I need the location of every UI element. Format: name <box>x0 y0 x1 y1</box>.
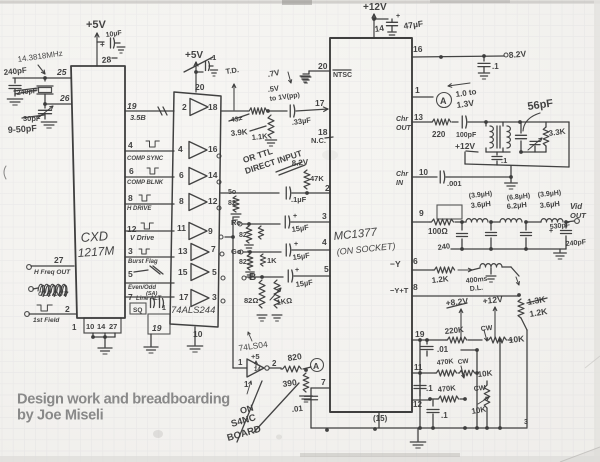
label 8.2V (47K) <box>291 158 309 168</box>
diagonal note line <box>237 381 299 442</box>
svg-text:2: 2 <box>182 102 187 112</box>
wire pin15 <box>373 412 388 428</box>
wire pin25 <box>13 67 71 80</box>
power +12V (tank) <box>455 141 478 152</box>
wire sync bus vertical <box>225 218 235 368</box>
IC U1 label CXD <box>80 228 108 245</box>
ground (ntsc top) <box>301 74 311 83</box>
svg-text:Burst Flag: Burst Flag <box>128 259 158 265</box>
wire pin12 v drive <box>125 223 174 242</box>
svg-text:IN: IN <box>396 180 404 187</box>
svg-text:.5V: .5V <box>267 84 279 94</box>
capacitor C1 10uF <box>100 30 125 53</box>
capacitor 240pF label <box>3 66 27 77</box>
resistor 100ohm <box>428 219 464 236</box>
svg-text:+5V: +5V <box>185 50 203 61</box>
svg-text:82: 82 <box>239 232 247 239</box>
svg-text:.01: .01 <box>437 345 449 354</box>
resistor 1.2K (pin6) <box>431 267 454 285</box>
svg-text:.1: .1 <box>441 411 448 420</box>
wire pin3 burst flag <box>125 246 174 265</box>
svg-text:1217M: 1217M <box>77 243 115 260</box>
svg-text:19: 19 <box>415 329 425 339</box>
svg-text:15: 15 <box>178 267 188 277</box>
resistor 470K (12) <box>428 383 467 402</box>
wire left drop (pots) <box>419 340 421 428</box>
capacitor .01 (pin7) <box>291 396 317 414</box>
ground (dl) <box>486 268 496 282</box>
wire tank top <box>484 120 569 124</box>
svg-text:9: 9 <box>208 226 213 236</box>
svg-text:.01: .01 <box>291 404 304 414</box>
box SQ <box>130 303 146 314</box>
buffer A6 pin13-7 <box>178 244 224 261</box>
crystal X1 <box>37 78 53 104</box>
svg-text:26: 26 <box>59 93 70 103</box>
resistor 82 (Bo) <box>244 280 267 321</box>
buffer A2 pin4-16 <box>178 142 221 159</box>
svg-text:5: 5 <box>212 267 217 277</box>
wire pin11 (U3) <box>412 363 435 375</box>
transformer T1 secondary <box>497 122 510 152</box>
wire pin1 <box>412 85 433 97</box>
svg-text:8.2V: 8.2V <box>291 158 309 168</box>
svg-text:820: 820 <box>287 351 303 363</box>
label OR TTL DIRECT INPUT <box>242 146 305 176</box>
svg-text:D.L.: D.L. <box>469 285 483 293</box>
svg-text:27: 27 <box>109 322 117 331</box>
svg-text:6: 6 <box>179 170 184 180</box>
capacitor 100pF <box>456 116 486 139</box>
capacitor C2 (240pF) <box>9 78 38 97</box>
svg-text:12: 12 <box>413 400 422 409</box>
potentiometer 10K b <box>458 366 493 379</box>
power +5V rail (left) <box>86 19 107 66</box>
power +5 (U4) <box>251 352 260 368</box>
svg-text:82: 82 <box>228 200 236 207</box>
svg-text:11: 11 <box>414 363 423 372</box>
arrow note 1 <box>244 380 252 394</box>
power +5V (U2) <box>184 50 213 92</box>
svg-text:14: 14 <box>208 170 218 180</box>
wire tank right <box>568 122 570 167</box>
ground (1.1K) <box>265 140 276 146</box>
wire pin13 chroma out <box>396 113 431 132</box>
svg-text:7: 7 <box>211 244 216 254</box>
ground (bottom bus) <box>410 428 425 448</box>
svg-text:7: 7 <box>128 292 133 302</box>
pin 28 label <box>101 54 117 65</box>
svg-text:5o: 5o <box>228 189 236 196</box>
inductor L2 <box>491 219 528 224</box>
terminal video out <box>566 219 579 224</box>
resistor 47K vert <box>304 170 324 189</box>
capacitor 15uF (pin5) <box>288 264 330 289</box>
wire 18 to resistor <box>221 68 292 111</box>
capacitor 56pF <box>516 122 527 152</box>
ground (CXD) <box>98 337 112 354</box>
box pin19 bottom <box>148 314 170 334</box>
svg-text:82: 82 <box>239 259 247 266</box>
svg-text:4: 4 <box>178 144 183 154</box>
ground (tank) <box>505 183 518 189</box>
svg-text:3.9K: 3.9K <box>230 127 248 138</box>
svg-text:CW: CW <box>480 325 493 333</box>
IC U3 label MC1377 <box>333 226 378 243</box>
IC U3 label on socket <box>336 241 396 257</box>
capacitor 47uF <box>387 13 424 38</box>
svg-text:11: 11 <box>177 223 186 233</box>
wire Go row <box>231 247 281 256</box>
label 470K CW <box>436 358 469 367</box>
svg-text:7: 7 <box>321 377 326 387</box>
svg-text:1: 1 <box>162 305 166 312</box>
note ON SYNC BOARD <box>226 403 263 444</box>
svg-text:1K: 1K <box>267 256 277 265</box>
svg-text:1st Field: 1st Field <box>33 317 60 324</box>
svg-text:−Y+T: −Y+T <box>390 286 409 295</box>
buffer A3 pin6-14 <box>179 168 221 185</box>
svg-text:3: 3 <box>128 246 133 256</box>
trimmer capacitor 9-50pF <box>38 104 53 119</box>
svg-text:470K: 470K <box>437 383 456 394</box>
resistor 1.3K/1.2K <box>518 294 549 319</box>
IC U1 label 1217M <box>77 243 115 260</box>
buffer A4 pin8-12 <box>179 194 221 211</box>
wire pin8 h drive <box>125 193 174 212</box>
svg-text:10K: 10K <box>477 368 493 379</box>
wire pin12 (U3) <box>412 400 430 409</box>
label 3.9uH b <box>537 190 561 210</box>
svg-text:13: 13 <box>414 113 423 122</box>
ground (U2) <box>187 327 202 352</box>
resistor 220 <box>431 119 451 139</box>
transformer T1 primary <box>486 122 493 152</box>
ground (C2) <box>7 99 22 105</box>
svg-text:Vid: Vid <box>570 202 583 211</box>
svg-text:.1: .1 <box>210 53 216 62</box>
resistor 470K (11) <box>435 370 457 376</box>
svg-text:+12V: +12V <box>363 2 387 13</box>
node A (right) <box>437 93 452 108</box>
wire pin10 chroma in <box>396 168 437 187</box>
wire pin17 arrow <box>296 98 328 112</box>
svg-text:+5: +5 <box>251 352 260 361</box>
IC U4 74LS04 label <box>238 332 269 353</box>
wire pin7 line alt <box>125 292 174 302</box>
potentiometer 10K c <box>471 381 490 427</box>
svg-text:−Y: −Y <box>390 259 401 269</box>
resistor 3.3K (tank) <box>543 122 566 152</box>
wire pin19 3.58MHz <box>125 101 174 122</box>
inverter U4A <box>238 358 277 377</box>
buffer A8 pin17-3 <box>179 290 225 307</box>
svg-text:OUT: OUT <box>396 125 412 132</box>
wire dl to pin8 <box>502 267 519 285</box>
svg-text:16: 16 <box>208 144 218 154</box>
svg-text:1: 1 <box>238 358 243 367</box>
svg-text:1: 1 <box>72 323 77 332</box>
svg-text:1: 1 <box>244 380 249 389</box>
resistor 82 (Go) <box>239 254 254 278</box>
resistor 390 <box>282 368 309 392</box>
svg-text:.1: .1 <box>426 384 433 393</box>
svg-text:3.5B: 3.5B <box>130 113 146 122</box>
svg-text:25: 25 <box>56 67 67 77</box>
potentiometer 10K a <box>480 325 525 345</box>
buffer A1 pin2-18 <box>182 99 218 116</box>
svg-text:A: A <box>313 361 319 371</box>
wire pin27 H freq out <box>27 255 74 276</box>
trimmer cap <box>528 138 542 152</box>
svg-text:3: 3 <box>322 211 327 221</box>
svg-text:220: 220 <box>432 130 446 139</box>
svg-text:8: 8 <box>179 196 184 206</box>
svg-text:V Drive: V Drive <box>130 235 154 242</box>
svg-text:8: 8 <box>128 193 133 203</box>
resistor 82 (sync) <box>228 196 241 220</box>
IC U2 74ALS244 body <box>170 92 221 327</box>
wire inverter in <box>233 367 247 369</box>
wire mid drop (pots) <box>461 348 479 428</box>
wire Ro row <box>231 218 280 227</box>
svg-text:12: 12 <box>127 224 137 234</box>
svg-text:27: 27 <box>54 255 64 265</box>
capacitor .1 (8.2V) <box>478 56 499 72</box>
svg-text:28: 28 <box>101 54 112 65</box>
svg-text:2: 2 <box>272 359 277 368</box>
wire pin4 comp sync <box>125 140 174 162</box>
capacitor c-l1 <box>486 222 497 249</box>
label T.D. <box>225 65 239 76</box>
wire pin2 1st field <box>25 304 76 324</box>
svg-text:17: 17 <box>179 292 189 302</box>
pin box bottom <box>72 318 121 333</box>
wire pin8 <box>390 282 521 297</box>
wire pin6 comp blank <box>125 166 174 186</box>
svg-text:240: 240 <box>437 241 451 252</box>
ground (trimmer) <box>41 122 56 128</box>
buffer A7 pin15-5 <box>178 264 225 281</box>
capacitors near SQ <box>151 299 167 313</box>
svg-text:9: 9 <box>419 208 424 218</box>
arrow to crystal <box>38 65 45 74</box>
svg-text:COMP BLNK: COMP BLNK <box>127 180 164 186</box>
svg-text:by Joe Miseli: by Joe Miseli <box>17 408 104 424</box>
stray pencil mark left margin <box>4 166 6 179</box>
svg-text:1: 1 <box>415 85 420 95</box>
svg-text:82Ω: 82Ω <box>244 296 258 305</box>
capacitor .1 (tank) <box>492 152 507 165</box>
capacitor 15uF (pin3) <box>285 211 330 234</box>
svg-text:100pF: 100pF <box>456 132 477 139</box>
svg-text:14: 14 <box>97 322 106 331</box>
buffer A5 pin12-11 <box>177 223 223 240</box>
inductor delay line <box>465 264 502 293</box>
label 30pF struck <box>22 114 44 123</box>
power +8.2V (pots) <box>445 296 469 340</box>
capacitor .1 (12) <box>427 400 448 428</box>
svg-text:+: + <box>396 13 400 20</box>
ground (pin19 box) <box>144 334 158 353</box>
svg-text:12: 12 <box>208 196 218 206</box>
svg-text:19: 19 <box>127 101 137 111</box>
capacitor .33uF <box>290 105 312 127</box>
inductor scribble CLK OUT <box>29 284 68 298</box>
svg-text:COMP SYNC: COMP SYNC <box>127 156 164 162</box>
svg-text:+12V: +12V <box>482 294 503 306</box>
pin 10 label (U2) <box>193 329 203 339</box>
svg-text:2: 2 <box>65 304 70 314</box>
wire pin5 even odd <box>125 266 174 297</box>
wire tank gnd stub <box>510 166 512 182</box>
svg-text:13: 13 <box>178 246 188 256</box>
svg-text:8.2V: 8.2V <box>508 48 527 60</box>
svg-text:+12V: +12V <box>455 141 475 151</box>
potentiometer 1K (Bo) <box>270 280 293 321</box>
svg-text:Line ALT: Line ALT <box>136 296 162 302</box>
label .5V to 1Vpp <box>267 84 300 103</box>
capacitor c-l2 <box>521 222 532 249</box>
ground (.1 8.2V) <box>478 73 489 79</box>
capacitor 15uF (pin4) <box>286 237 330 262</box>
wire to 100pF <box>452 121 458 123</box>
capacitor .1 (11) <box>414 373 433 396</box>
inductor L3 <box>526 219 568 224</box>
svg-text:H Freq OUT: H Freq OUT <box>34 269 71 276</box>
resistor 1.1K <box>250 115 274 142</box>
wire pin2 row <box>221 183 330 196</box>
svg-text:CLK OUT: CLK OUT <box>38 291 68 298</box>
inductor L1 <box>462 219 493 224</box>
svg-text:5: 5 <box>128 269 133 279</box>
capacitor .01 (19) <box>421 340 449 356</box>
resistor 100ohm box <box>437 205 462 219</box>
wire pin19 (U3) <box>412 329 446 342</box>
svg-text:CXD: CXD <box>80 228 108 245</box>
svg-text:20: 20 <box>318 61 328 71</box>
resistor (Ro2) <box>258 226 263 239</box>
wire pin26 <box>43 93 71 106</box>
caption line2 <box>17 408 104 424</box>
svg-text:3: 3 <box>524 419 528 426</box>
capacitor .001 (pin10) <box>440 171 513 188</box>
capacitor .1uF (pin2) <box>286 187 330 204</box>
capacitor (l1 240) <box>457 222 468 249</box>
IC U3 MC1377 body <box>330 38 412 412</box>
label 9-50pF <box>7 123 37 135</box>
wire pin16 8.2V <box>412 44 527 60</box>
wire pots right drop <box>498 338 502 427</box>
svg-text:14: 14 <box>374 23 385 34</box>
svg-text:19: 19 <box>152 323 162 333</box>
svg-text:+: + <box>295 267 299 274</box>
svg-text:14: 14 <box>254 367 261 373</box>
svg-text:4: 4 <box>322 237 327 247</box>
label 56pF <box>523 97 554 131</box>
wire lc bottom rail <box>437 241 566 252</box>
svg-text:+5V: +5V <box>86 19 107 31</box>
label N.C. pin18 <box>311 127 333 145</box>
ground (lc rail) <box>554 249 567 259</box>
label Vid OUT <box>570 202 587 220</box>
capacitor 530pF out <box>549 222 587 249</box>
wire pin9 <box>412 208 430 222</box>
svg-text:A: A <box>440 96 447 106</box>
svg-text:Chr: Chr <box>396 171 409 178</box>
crystal label 14.3818MHz <box>17 49 63 64</box>
svg-text:+: + <box>293 213 297 220</box>
wire pin6 <box>390 256 433 270</box>
svg-text:6: 6 <box>413 256 418 266</box>
svg-text:47K: 47K <box>310 174 324 183</box>
power +12V (pots) <box>482 294 503 339</box>
svg-text:(15): (15) <box>373 414 388 423</box>
svg-text:T.D.: T.D. <box>225 65 239 76</box>
svg-text:Chr: Chr <box>396 116 409 123</box>
svg-text:CW: CW <box>473 385 486 393</box>
svg-text:8: 8 <box>413 282 418 292</box>
pin 20 label <box>195 82 205 92</box>
wire pin20 ntsc <box>309 61 352 79</box>
svg-text:20: 20 <box>195 82 205 92</box>
svg-text:N.C.: N.C. <box>311 136 326 145</box>
power +12V (U3) <box>363 2 388 38</box>
svg-text:3: 3 <box>212 292 217 302</box>
svg-text:1.2K: 1.2K <box>431 274 449 285</box>
wire tank bottom <box>465 150 569 167</box>
caption line1 <box>17 392 230 408</box>
svg-text:16: 16 <box>413 44 423 54</box>
arrow dl <box>458 268 472 272</box>
svg-text:.1µF: .1µF <box>291 195 307 204</box>
resistor 82 (Ro) <box>239 226 253 251</box>
resistor 1K (Go) <box>260 254 277 266</box>
svg-text:10: 10 <box>86 322 94 331</box>
wire to cap .33 <box>266 109 287 113</box>
wire right drop <box>521 318 528 427</box>
svg-text:.1: .1 <box>501 156 507 165</box>
svg-text:.001: .001 <box>447 179 462 188</box>
svg-text:9-50pF: 9-50pF <box>7 123 37 135</box>
resistor R 3.9K <box>229 108 267 138</box>
svg-text:+: + <box>294 241 298 248</box>
IC U2 label 74ALS244 <box>171 305 215 316</box>
IC U1 CXD1217M body <box>71 66 125 318</box>
svg-text:NTSC: NTSC <box>333 72 352 79</box>
svg-text:CW: CW <box>457 358 469 366</box>
svg-text:+: + <box>100 40 105 49</box>
wire gnd bus CXD <box>91 333 115 339</box>
resistor 220K <box>444 325 482 343</box>
svg-text:74ALS244: 74ALS244 <box>171 305 215 316</box>
ground (pin20) <box>300 76 310 82</box>
svg-text:B: B <box>249 272 256 283</box>
node A (left) <box>303 359 324 372</box>
svg-text:.1: .1 <box>492 62 499 71</box>
svg-text:10: 10 <box>419 168 428 177</box>
label 6.8uH <box>506 193 530 211</box>
ground (390) <box>300 396 313 402</box>
resistor 820 <box>269 351 303 372</box>
label 3.9uH a <box>468 191 492 210</box>
svg-text:5: 5 <box>324 264 329 274</box>
wire Bo row <box>242 272 283 283</box>
svg-text:100Ω: 100Ω <box>428 227 448 236</box>
svg-text:4: 4 <box>128 140 133 150</box>
svg-text:H DRIVE: H DRIVE <box>127 206 152 212</box>
wire pin7 net <box>311 377 330 428</box>
